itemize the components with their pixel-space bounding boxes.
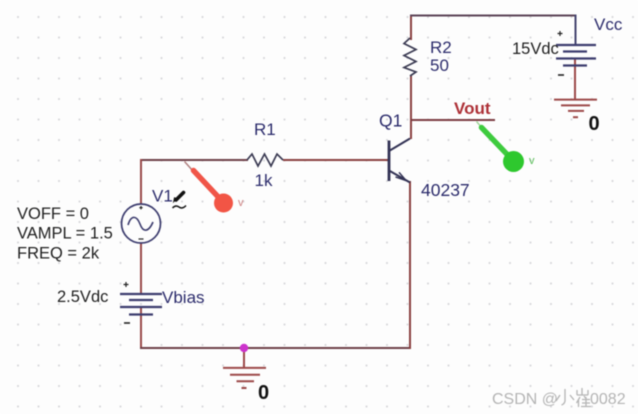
ground 0 (top right, under Vcc battery) bbox=[554, 100, 600, 135]
ground 0 (bottom center) bbox=[223, 368, 269, 404]
battery Vcc 15Vdc bbox=[512, 31, 596, 75]
wire bottom ground lead bbox=[243, 348, 245, 368]
voltage probe (red) on V1 output bbox=[185, 162, 245, 213]
wire Vout stub bbox=[411, 119, 495, 121]
svg-text:Vcc: Vcc bbox=[594, 15, 623, 34]
AC source V1 (VSIN) bbox=[122, 187, 173, 244]
svg-text:Vout: Vout bbox=[454, 99, 491, 118]
svg-text:1k: 1k bbox=[255, 171, 273, 190]
wire emitter to bottom rail bbox=[409, 181, 411, 349]
svg-text:VOFF = 0: VOFF = 0 bbox=[17, 205, 89, 223]
svg-text:FREQ = 2k: FREQ = 2k bbox=[17, 245, 100, 263]
wire Vcc battery to ground bbox=[574, 59, 576, 100]
svg-text:Vbias: Vbias bbox=[162, 288, 205, 307]
wire R2 top to top corner bbox=[410, 15, 412, 41]
battery Vbias bbox=[57, 282, 205, 323]
svg-text:V1: V1 bbox=[152, 187, 173, 206]
junction dot (bottom rail to ground) bbox=[240, 344, 248, 352]
watermark CSDN bbox=[492, 388, 626, 408]
svg-text:R1: R1 bbox=[254, 120, 276, 139]
svg-text:50: 50 bbox=[430, 56, 449, 75]
wire bottom rail bbox=[140, 347, 411, 349]
voltage probe (green) on Vout bbox=[477, 122, 536, 173]
svg-text:CSDN @: CSDN @ bbox=[492, 391, 558, 408]
svg-text:Q1: Q1 bbox=[379, 111, 402, 131]
svg-text:40237: 40237 bbox=[421, 180, 470, 200]
svg-text:0082: 0082 bbox=[590, 391, 626, 408]
wire collector to R2 bbox=[410, 76, 412, 139]
wire top-left horizontal (V1 top to R1) bbox=[140, 159, 248, 161]
pencil edit icon next to V1 bbox=[173, 193, 187, 209]
wire left vertical (top corner to V1) bbox=[140, 159, 142, 205]
wire V1 bottom to Vbias battery bbox=[140, 242, 142, 294]
wire Vbias battery to bottom rail bbox=[140, 307, 142, 349]
svg-text:2.5Vdc: 2.5Vdc bbox=[57, 288, 108, 306]
node label Vout bbox=[454, 99, 491, 118]
svg-text:v: v bbox=[529, 155, 535, 167]
resistor R2 bbox=[404, 38, 452, 76]
svg-text:VAMPL = 1.5: VAMPL = 1.5 bbox=[17, 225, 113, 243]
svg-text:0: 0 bbox=[589, 113, 600, 135]
resistor R1 bbox=[247, 120, 283, 190]
svg-text:R2: R2 bbox=[430, 38, 452, 57]
svg-text:v: v bbox=[238, 197, 244, 209]
power label Vcc bbox=[594, 15, 623, 34]
wire top-right horizontal (to Vcc battery) bbox=[410, 15, 576, 17]
transistor Q1 (NPN 40237) bbox=[379, 111, 470, 201]
wire Vcc battery top lead bbox=[575, 15, 577, 46]
V1 parameter text bbox=[17, 205, 113, 263]
svg-text:15Vdc: 15Vdc bbox=[512, 40, 559, 58]
wire R1 to Q1 base bbox=[283, 159, 388, 161]
svg-text:0: 0 bbox=[258, 382, 269, 404]
